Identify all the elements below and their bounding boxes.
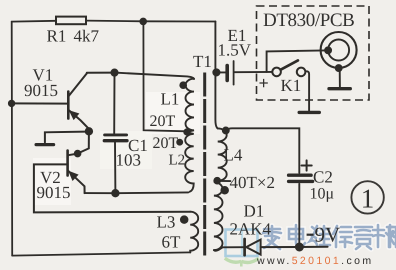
wire battery junction to L4 top <box>215 72 217 128</box>
node L1 phase dot <box>180 82 186 88</box>
svg-text:10μ: 10μ <box>310 186 335 203</box>
node primary centre tap <box>184 129 189 134</box>
svg-text:www.520101.com: www.520101.com <box>256 255 374 267</box>
svg-text:9V: 9V <box>315 223 341 247</box>
svg-text:T1: T1 <box>193 52 212 71</box>
node meter bottom dot <box>336 65 342 71</box>
wire from top rail down to primary centre tap <box>143 21 186 131</box>
svg-text:L3: L3 <box>157 213 176 232</box>
node C1 bottom <box>112 190 118 196</box>
watermark url <box>256 255 374 267</box>
transformer T1 core <box>203 73 206 256</box>
node V1 base / left border <box>9 101 14 106</box>
wire V1 emitter node down to V2 collector <box>78 132 89 154</box>
ground (meter) <box>329 87 350 90</box>
wire top rail right of R1 <box>86 20 215 23</box>
diode D1 <box>243 239 246 255</box>
resistor R1 <box>56 17 86 25</box>
svg-text:9015: 9015 <box>24 81 58 100</box>
node L4 lower phase dot <box>221 187 228 194</box>
wire L4 top to C2 top <box>226 128 299 173</box>
node V1 emitter junction <box>86 128 92 134</box>
svg-text:103: 103 <box>116 151 142 170</box>
switch K1 <box>272 68 281 77</box>
svg-text:9015: 9015 <box>37 183 71 202</box>
wire L4 bottom to diode <box>214 247 244 251</box>
svg-text:6T: 6T <box>162 233 182 252</box>
svg-text:1: 1 <box>361 184 375 214</box>
svg-text:K1: K1 <box>281 76 302 95</box>
node L4 tap dot <box>214 178 220 184</box>
capacitor C1 <box>113 73 115 134</box>
node battery junction <box>213 69 219 75</box>
transistor V1 <box>67 92 70 119</box>
C2 plus sign <box>302 160 312 170</box>
svg-text:20T: 20T <box>153 135 179 152</box>
wire top rail left of R1 <box>12 20 56 23</box>
wire V2 base to L3 <box>34 164 190 212</box>
inductor L3 (feedback 6T) <box>190 212 198 253</box>
svg-text:L1: L1 <box>161 90 180 109</box>
wire bottom border <box>12 252 190 255</box>
meter M (DT830 indicator) <box>321 32 357 68</box>
svg-text:L2: L2 <box>169 153 186 169</box>
wire diode to output <box>261 246 328 248</box>
watermark logo 520101 <box>225 230 259 267</box>
wire L4 tap stub <box>220 180 231 182</box>
svg-text:40T×2: 40T×2 <box>230 173 275 192</box>
svg-text:L4: L4 <box>224 146 243 165</box>
svg-text:D1: D1 <box>244 202 265 221</box>
svg-text:DT830/PCB: DT830/PCB <box>263 10 354 31</box>
node V2 collector <box>75 151 81 157</box>
svg-text:+: + <box>259 73 269 93</box>
svg-text:1.5V: 1.5V <box>218 41 252 60</box>
wire V1 collector node to winding L1 top <box>115 73 195 79</box>
node top-rail junction <box>140 19 146 25</box>
inductor L1 (primary upper 20T) <box>186 79 195 132</box>
wire V1 collector node <box>87 72 115 74</box>
wire meter to ground <box>339 68 341 87</box>
wire top rail down to battery junction <box>214 22 216 73</box>
label -9V output <box>307 234 314 236</box>
wire V1 emitter node to ground stub <box>45 132 86 143</box>
wire V2 emitter rail to winding L2 tail <box>85 191 189 194</box>
wire left border <box>11 22 14 256</box>
transistor V2 <box>66 151 69 176</box>
wire V1 base to left border <box>12 102 69 104</box>
wire meter branch <box>267 50 325 72</box>
node meter input dot <box>325 47 331 53</box>
svg-text:2AK4: 2AK4 <box>230 220 272 239</box>
DT830/PCB dashed enclosure <box>257 6 370 100</box>
node output junction <box>296 244 303 251</box>
node V1 collector <box>111 70 117 76</box>
node L3 phase dot <box>181 216 188 223</box>
ground (K1) <box>299 111 319 114</box>
svg-text:20T: 20T <box>150 113 176 130</box>
node phase dot after 20T label <box>177 140 182 145</box>
battery E1 <box>219 71 225 73</box>
wire battery plus to switch <box>235 71 273 73</box>
svg-text:4k7: 4k7 <box>74 27 100 46</box>
figure number 1 <box>351 181 383 213</box>
node L4 top dot <box>223 128 229 134</box>
capacitor C2 <box>298 184 300 247</box>
ground (V1 emitter) <box>36 143 54 146</box>
light scan patches <box>146 92 200 134</box>
svg-text:R1: R1 <box>47 27 67 46</box>
inductor L4 lower (40T) <box>214 181 223 250</box>
wire switch to ground <box>305 71 309 111</box>
inductor L4 upper (40T) <box>218 128 227 180</box>
inductor L2 (primary lower 20T) <box>185 133 194 192</box>
svg-text:C2: C2 <box>313 168 333 187</box>
